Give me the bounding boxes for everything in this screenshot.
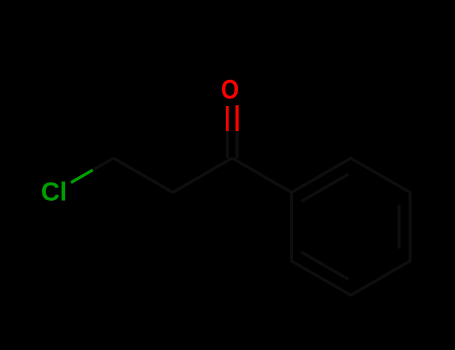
double bond C1=O (red halves near O) (227, 105, 237, 158)
svg-text:O: O (221, 75, 239, 105)
bond C3-C2 (114, 158, 173, 192)
svg-text:Cl: Cl (41, 177, 67, 207)
ring inner double bond 2 (right edge) (398, 205, 401, 249)
bond Cl-C3 (green half near Cl) (71, 158, 114, 183)
ring inner double bond 1 (ipso-top edge) (301, 174, 349, 201)
benzene ring outline (292, 158, 411, 295)
bond C1-ring (to ipso carbon) (232, 158, 291, 192)
bond C2-C1 (173, 158, 232, 192)
ring inner double bond 3 (bottom-left edge) (301, 252, 349, 279)
